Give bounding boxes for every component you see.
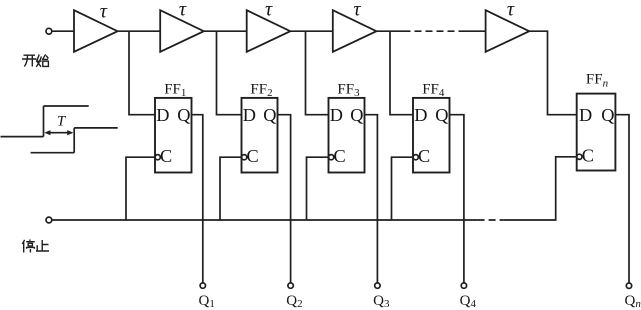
flip-flop FF4 box xyxy=(413,98,450,173)
label 停止 xyxy=(22,240,49,253)
wire start terminal to buffer A1 xyxy=(52,30,74,32)
flip-flop FF2 box xyxy=(242,98,278,173)
delay buffer A4 (τ) xyxy=(333,10,377,52)
FF4 clock bubble xyxy=(413,155,418,160)
wire A1 output to A2 input xyxy=(118,30,161,32)
wire stop bus horizontal xyxy=(52,219,478,221)
delay buffer A2 (τ) xyxy=(160,10,204,52)
svg-text:C: C xyxy=(247,146,259,166)
wire dashed continuation of delay chain xyxy=(404,30,460,32)
waveform: second rising edge xyxy=(73,128,75,153)
svg-text:FF2: FF2 xyxy=(250,82,272,100)
svg-text:Q: Q xyxy=(350,105,363,125)
svg-text:D: D xyxy=(414,105,427,125)
wire FF3 Q output down to Q3 terminal xyxy=(365,115,378,283)
waveform: second high level xyxy=(74,127,118,129)
FFn clock bubble xyxy=(577,154,582,159)
svg-text:FF1: FF1 xyxy=(164,82,186,100)
svg-text:Q4: Q4 xyxy=(460,293,477,310)
wire stop bus up to FF4 C xyxy=(392,157,414,220)
svg-text:Q2: Q2 xyxy=(286,293,302,310)
wire A3 output to A4 input xyxy=(290,30,333,32)
svg-text:T: T xyxy=(57,113,67,129)
delay buffer A5 (τ) xyxy=(486,10,530,52)
svg-text:Q: Q xyxy=(601,105,614,125)
svg-text:C: C xyxy=(160,146,172,166)
svg-text:Qn: Qn xyxy=(625,293,641,310)
wire FF4 Q output down to Q4 terminal xyxy=(450,115,464,283)
svg-text:C: C xyxy=(334,146,346,166)
wire stop bus up to FF1 C xyxy=(126,157,155,220)
output terminal Qn xyxy=(626,283,631,288)
flip-flop FF1 box xyxy=(155,98,192,173)
waveform: first rising edge xyxy=(43,106,45,137)
svg-text:FF3: FF3 xyxy=(337,82,360,100)
wire FF1 Q output down to Q1 terminal xyxy=(192,115,203,283)
FF1 clock bubble xyxy=(155,155,160,160)
svg-text:τ: τ xyxy=(179,0,187,20)
delay arrow T (double-headed) xyxy=(44,130,73,135)
svg-text:C: C xyxy=(582,146,594,166)
svg-text:τ: τ xyxy=(353,0,361,20)
FF3 clock bubble xyxy=(329,155,334,160)
svg-text:FFn: FFn xyxy=(586,72,609,90)
wire A5 output to FFn D input xyxy=(529,31,577,115)
flip-flop FFn box xyxy=(577,94,616,171)
svg-text:Q3: Q3 xyxy=(373,293,390,310)
svg-text:Q: Q xyxy=(263,105,276,125)
input terminal 开始 (start) xyxy=(46,28,52,34)
input terminal 停止 (stop) xyxy=(46,217,52,223)
delay buffer A3 (τ) xyxy=(247,10,291,52)
svg-text:τ: τ xyxy=(265,0,273,20)
wire A3 output down to FF3 D input xyxy=(306,31,329,115)
wire stop bus to FFn C xyxy=(504,157,577,220)
wire A4 output solid segment xyxy=(376,30,403,32)
output terminal Q4 xyxy=(461,283,466,288)
svg-text:Q1: Q1 xyxy=(199,293,215,310)
wire A1 output down to FF1 D input xyxy=(129,31,155,115)
svg-text:D: D xyxy=(579,105,592,125)
wire stop bus up to FF2 C xyxy=(220,157,242,220)
waveform: second low level xyxy=(31,152,75,154)
output terminal Q1 xyxy=(200,283,205,288)
wire A2 output to A3 input xyxy=(204,30,247,32)
wire A2 output down to FF2 D input xyxy=(217,31,242,115)
flip-flop FF3 box xyxy=(329,98,365,173)
waveform: low level before first rising edge xyxy=(1,136,44,138)
svg-text:D: D xyxy=(330,105,343,125)
svg-text:D: D xyxy=(156,105,169,125)
svg-text:Q: Q xyxy=(435,105,448,125)
svg-text:D: D xyxy=(243,105,256,125)
output terminal Q2 xyxy=(288,283,293,288)
svg-text:τ: τ xyxy=(507,0,515,20)
wire stop bus up to FF3 C xyxy=(307,157,329,220)
wire A4 output down to FF4 D input xyxy=(390,31,413,115)
delay buffer A1 (τ) xyxy=(74,10,118,52)
label 开始 xyxy=(22,54,48,67)
svg-text:τ: τ xyxy=(100,1,108,23)
wire stop bus dashed section xyxy=(478,219,504,221)
wire solid segment into buffer A5 xyxy=(459,30,486,32)
svg-text:C: C xyxy=(418,146,430,166)
svg-text:Q: Q xyxy=(177,105,190,125)
waveform: first high level xyxy=(44,105,89,107)
wire FFn Q output down to Qn terminal xyxy=(615,115,629,283)
FF2 clock bubble xyxy=(242,155,247,160)
output terminal Q3 xyxy=(375,283,380,288)
svg-text:FF4: FF4 xyxy=(422,82,445,100)
wire FF2 Q output down to Q2 terminal xyxy=(278,115,291,283)
